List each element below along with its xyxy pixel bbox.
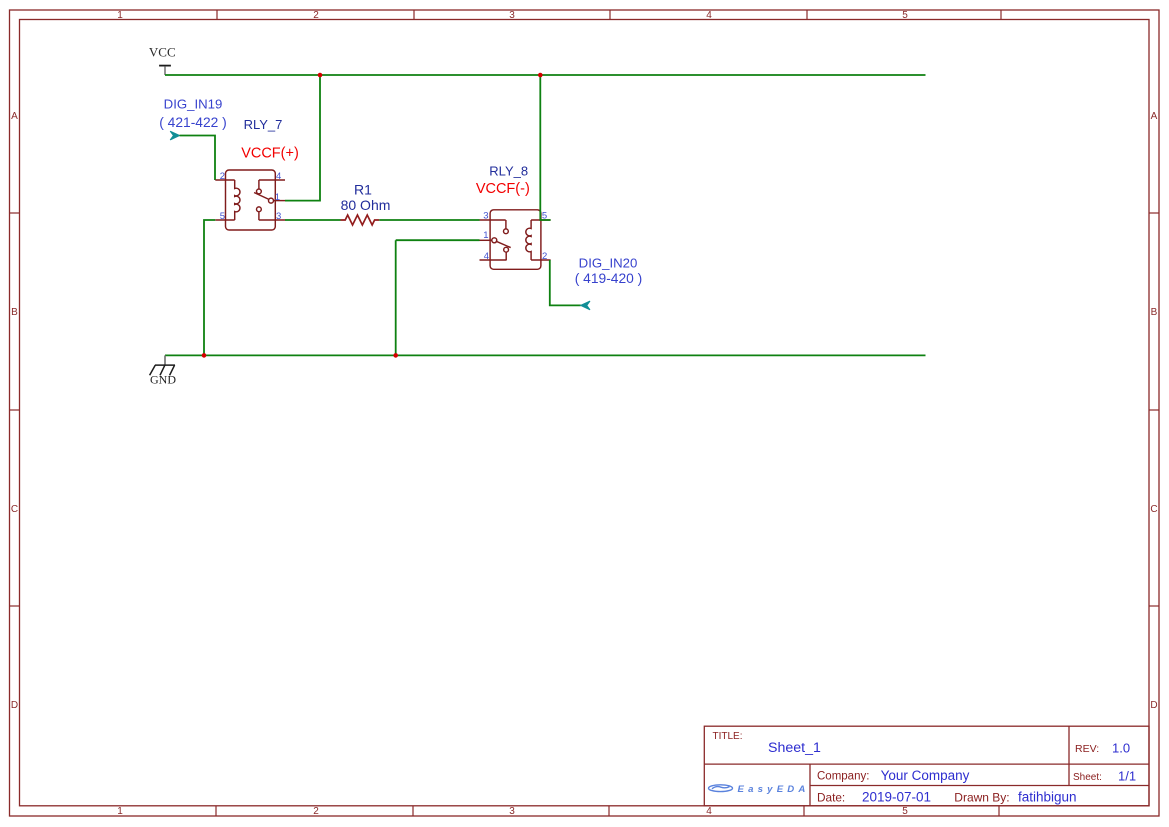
svg-text:B: B: [11, 307, 18, 318]
svg-text:1/1: 1/1: [1118, 768, 1136, 783]
svg-text:5: 5: [902, 806, 908, 817]
frame column numbers bottom: [117, 806, 908, 817]
frame row letters right: [1150, 111, 1157, 711]
resistor R1: [341, 215, 380, 225]
port arrow DIG_IN20: [581, 301, 590, 310]
EasyEDA logo cloud: [709, 785, 733, 792]
junction dot GND/RLY_8: [393, 353, 398, 358]
frame column ticks top: [217, 10, 1001, 20]
svg-text:1: 1: [483, 230, 488, 241]
svg-text:VCC: VCC: [149, 45, 176, 60]
junction dot VCC/RLY_7: [318, 73, 323, 78]
svg-text:R1: R1: [354, 182, 372, 198]
svg-text:5: 5: [220, 211, 225, 222]
wire VCC to RLY_7 pin1: [285, 75, 320, 201]
svg-text:Company:: Company:: [817, 771, 869, 783]
title block frame: [704, 726, 1149, 806]
svg-text:3: 3: [509, 10, 515, 21]
svg-text:2019-07-01: 2019-07-01: [862, 790, 931, 805]
svg-text:2: 2: [542, 251, 547, 262]
svg-text:2: 2: [313, 806, 319, 817]
svg-text:( 421-422 ): ( 421-422 ): [159, 115, 227, 130]
relay RLY_8: [480, 210, 551, 269]
svg-text:Sheet:: Sheet:: [1073, 772, 1102, 783]
svg-text:1: 1: [117, 10, 123, 21]
svg-text:RLY_8: RLY_8: [489, 164, 528, 179]
svg-text:1: 1: [117, 806, 123, 817]
svg-text:80 Ohm: 80 Ohm: [341, 197, 391, 213]
svg-text:5: 5: [902, 10, 908, 21]
wire DIG_IN19 to RLY_7 pin2: [180, 136, 215, 181]
svg-text:2: 2: [220, 171, 225, 182]
ground flag GND: [164, 355, 166, 365]
svg-text:1: 1: [275, 192, 280, 203]
svg-text:REV:: REV:: [1075, 743, 1099, 755]
svg-text:VCCF(+): VCCF(+): [241, 146, 299, 162]
svg-text:5: 5: [542, 211, 547, 222]
relay RLY_7 pin numbers: [220, 171, 282, 222]
svg-text:DIG_IN19: DIG_IN19: [164, 97, 223, 112]
svg-text:( 419-420 ): ( 419-420 ): [575, 271, 643, 286]
frame row ticks left: [10, 213, 20, 606]
svg-text:1.0: 1.0: [1112, 740, 1130, 755]
frame column ticks bottom: [216, 806, 999, 816]
svg-text:RLY_7: RLY_7: [244, 117, 283, 132]
wire RLY_8 pin2 to DIG_IN20: [550, 260, 581, 305]
junction dot GND/RLY_7: [202, 353, 207, 358]
wire VCC rail: [165, 74, 926, 76]
svg-text:Your Company: Your Company: [881, 768, 970, 783]
net flag VCC: [159, 66, 171, 75]
svg-text:A: A: [11, 111, 18, 122]
svg-text:A: A: [1151, 111, 1158, 122]
svg-text:DIG_IN20: DIG_IN20: [579, 256, 638, 271]
svg-text:2: 2: [313, 10, 319, 21]
svg-text:TITLE:: TITLE:: [713, 731, 743, 742]
svg-text:fatihbigun: fatihbigun: [1018, 790, 1077, 805]
svg-text:C: C: [11, 504, 18, 515]
svg-text:EasyEDA: EasyEDA: [738, 784, 810, 795]
wire RLY_7 pin5 to GND: [204, 220, 215, 355]
svg-text:4: 4: [706, 806, 712, 817]
svg-text:4: 4: [706, 10, 712, 21]
svg-text:B: B: [1151, 307, 1158, 318]
svg-text:Sheet_1: Sheet_1: [768, 740, 821, 756]
svg-text:Drawn By:: Drawn By:: [954, 790, 1009, 804]
relay RLY_7: [215, 170, 285, 230]
svg-text:3: 3: [276, 211, 281, 222]
frame column numbers top: [117, 10, 908, 21]
svg-text:D: D: [1150, 700, 1157, 711]
relay RLY_8 pin numbers: [483, 211, 547, 263]
wire R1 to RLY_8 pin3: [379, 219, 479, 221]
wire GND rail: [165, 354, 926, 356]
wire RLY_7 pin3 to R1: [285, 219, 341, 221]
svg-text:D: D: [11, 700, 18, 711]
wire VCC to RLY_8 pin5: [540, 75, 550, 220]
svg-text:3: 3: [509, 806, 515, 817]
svg-text:4: 4: [276, 171, 281, 182]
frame row letters left: [11, 111, 18, 711]
wire GND to RLY_8 pin1: [396, 239, 480, 241]
svg-text:VCCF(-): VCCF(-): [476, 181, 530, 197]
svg-text:4: 4: [484, 251, 489, 262]
svg-text:Date:: Date:: [817, 790, 845, 804]
frame row ticks right: [1149, 213, 1159, 606]
svg-text:GND: GND: [150, 373, 176, 387]
junction dot VCC/RLY_8: [538, 73, 543, 78]
port arrow DIG_IN19: [170, 131, 179, 140]
svg-text:C: C: [1150, 504, 1157, 515]
svg-text:3: 3: [483, 211, 488, 222]
